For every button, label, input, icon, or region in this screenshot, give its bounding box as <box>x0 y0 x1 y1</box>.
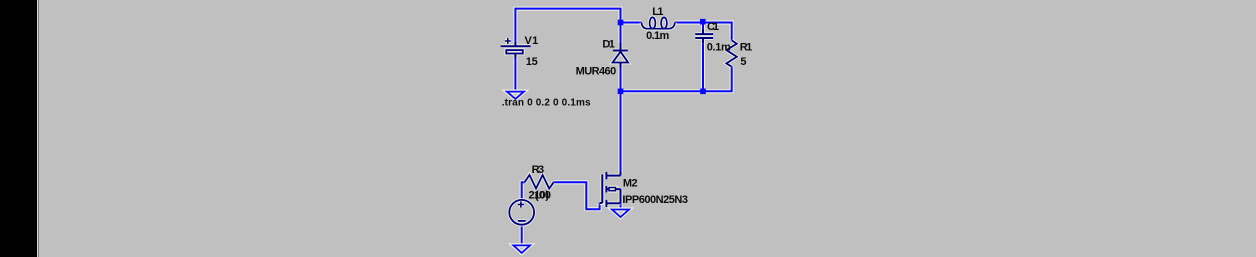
wire R1 bottom to bottom rail to D1 junction <box>621 67 732 92</box>
wire D1 top lead <box>618 23 622 44</box>
voltage source V1 battery symbol <box>501 38 531 58</box>
svg-text:0.1m: 0.1m <box>707 41 731 53</box>
wire C1 top lead <box>701 23 705 29</box>
voltage source V2 circle <box>509 200 534 225</box>
svg-text:R1: R1 <box>740 42 753 54</box>
svg-text:R3: R3 <box>532 164 545 176</box>
wire R3 to M2 gate <box>554 182 600 209</box>
wire M2 source to ground <box>618 203 622 209</box>
node junction at D1 top / L1 <box>618 20 624 26</box>
svg-text:5: 5 <box>740 56 746 68</box>
svg-text:15: 15 <box>526 56 538 68</box>
svg-text:IPP600N25N3: IPP600N25N3 <box>622 194 688 206</box>
node junction at D1 bottom rail <box>618 89 624 95</box>
resistor R3 <box>525 175 554 189</box>
wire L1 right lead to R1 top corner <box>675 23 732 41</box>
node junction at C1 bottom rail <box>700 89 706 95</box>
svg-text:D1: D1 <box>602 38 615 50</box>
ground below V1 <box>507 92 524 99</box>
wire V1 top rail to D1 top <box>515 9 620 42</box>
resistor R1 <box>726 40 736 66</box>
wire R3 left lead to V2 top <box>522 182 525 200</box>
ground below M2 <box>612 210 629 218</box>
node junction at L1 right / C1 top <box>700 19 706 25</box>
svg-text:.tran 0 0.2 0 0.1ms: .tran 0 0.2 0 0.1ms <box>502 98 591 109</box>
wire junction to L1 left lead <box>621 20 642 24</box>
wire D1 bottom to M2 drain <box>618 68 622 172</box>
nmos transistor M2 <box>600 172 621 207</box>
svg-text:0.1m: 0.1m <box>646 30 669 42</box>
svg-text:M2: M2 <box>623 177 638 189</box>
wire V1 bottom lead to ground <box>513 54 517 92</box>
diode D1 MUR460 <box>613 43 629 68</box>
svg-text:V1: V1 <box>525 35 539 47</box>
left black sidebar panel <box>0 0 39 257</box>
wire V2 bottom lead to ground <box>520 225 524 246</box>
inductor L1 <box>641 17 675 28</box>
wire C1 bottom lead to bottom rail <box>701 43 705 91</box>
svg-text:MUR460: MUR460 <box>576 66 617 78</box>
overlapping value text 100 and 2(0) <box>529 190 552 202</box>
svg-text:C1: C1 <box>707 21 719 33</box>
ground below V2 <box>513 245 530 253</box>
svg-text:L1: L1 <box>652 6 663 18</box>
capacitor C1 <box>695 29 713 44</box>
svg-text:2(0): 2(0) <box>529 190 550 202</box>
